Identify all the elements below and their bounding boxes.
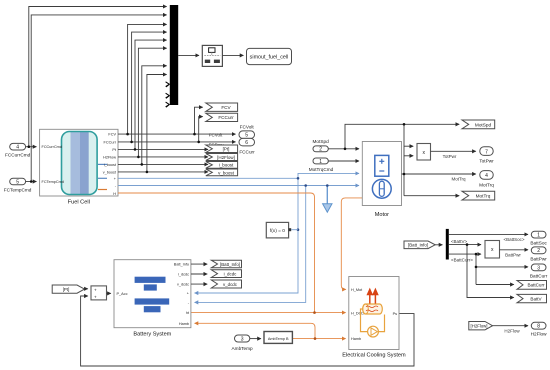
wire port2 to motor	[328, 148, 359, 150]
wire MotTrq branch to goto MotTrq	[404, 195, 459, 197]
svg-text:[Pt]: [Pt]	[223, 147, 230, 152]
svg-text:+: +	[94, 294, 97, 299]
wire BattCurr branch to outport 3	[476, 266, 528, 268]
wire battery v_dcdc to goto	[191, 283, 207, 285]
svg-text:<BattV>: <BattV>	[451, 239, 468, 244]
svg-text:MotSpd: MotSpd	[313, 139, 330, 144]
svg-text:FCCurr: FCCurr	[239, 149, 255, 154]
svg-text:FCV: FCV	[108, 133, 116, 137]
input port 3 AmbTemp	[232, 335, 253, 351]
svg-text:v_dcdc: v_dcdc	[177, 283, 189, 287]
input port 5 FCTempCmd	[4, 178, 32, 192]
outport 4 MotTrq	[479, 171, 494, 188]
wire H2Flow branch to bus creator	[138, 48, 166, 157]
svg-text:7: 7	[485, 149, 488, 155]
goto tag MotSpd	[462, 120, 495, 129]
svg-text:[H2Flow]: [H2Flow]	[471, 324, 488, 329]
svg-text:BattV: BattV	[530, 296, 542, 301]
wire i_boost branch to bus creator	[142, 66, 167, 165]
wire v_boost branch to bus creator	[147, 75, 167, 172]
svg-text:H_Mot: H_Mot	[351, 288, 363, 292]
wire FCCurrCmd branch to bus creator	[29, 7, 167, 147]
thermal wire battery ht to cooling H_DCDC	[191, 312, 346, 314]
outport 3 BattCurr	[530, 264, 548, 278]
wire record block to simout	[222, 54, 243, 56]
svg-text:1: 1	[319, 159, 322, 165]
goto tag BattV	[517, 294, 547, 302]
wire [Pt] to sum	[85, 288, 88, 290]
wire FCV branch to bus creator	[128, 24, 167, 134]
svg-text:BattSoc: BattSoc	[530, 241, 547, 246]
input port 1 MotTrqCmd	[309, 158, 334, 172]
wire FCV to outport 5	[118, 133, 236, 135]
outport 2 BattPwr	[530, 247, 547, 261]
svg-text:Hamb: Hamb	[179, 322, 189, 326]
from tag [Pt]	[52, 285, 84, 293]
wire BattV to product2	[449, 244, 481, 246]
product block BattPwr	[485, 241, 500, 259]
wire - down to battery	[195, 186, 306, 303]
simout_fuel_cell block	[247, 48, 292, 64]
svg-text:P_Acc: P_Acc	[117, 292, 128, 296]
outport 5 FCVolt	[239, 125, 255, 139]
Electrical Cooling System block	[342, 277, 406, 359]
wire port3 to AmbTemp block	[250, 338, 261, 340]
svg-text:Motor: Motor	[375, 212, 389, 218]
goto tag [Pt]	[206, 145, 238, 153]
pump and pipes	[361, 309, 368, 332]
wire FCCurr to outport 6	[118, 141, 236, 143]
thermal wire AmbTemp to cooling Hamb	[292, 338, 345, 340]
junction dots black	[28, 123, 478, 268]
svg-text:BattCurr: BattCurr	[527, 283, 545, 288]
goto tag i_dcdc	[211, 270, 241, 278]
bus selector	[446, 229, 449, 260]
annotation blue arrow	[323, 186, 332, 213]
svg-text:BattPwr: BattPwr	[530, 256, 547, 261]
svg-text:FCTempCmd: FCTempCmd	[4, 187, 32, 192]
feedback wire cooling Ps to sum	[81, 296, 414, 366]
wire sum to battery P_Acc	[107, 292, 111, 294]
svg-text:MotTrq: MotTrq	[451, 176, 466, 181]
svg-text:<BattSoc>: <BattSoc>	[503, 237, 524, 242]
goto tag [Batt_Info]	[211, 260, 241, 268]
wire Pt to goto [Pt]	[118, 148, 208, 150]
junction dots orange	[313, 311, 316, 340]
wire FCCurr branch to bus creator	[132, 32, 167, 142]
wire BattCurr branch down	[475, 254, 477, 284]
outport 7 TotPwr	[479, 147, 494, 164]
svg-text:2: 2	[537, 248, 540, 254]
svg-text:i_dcdc: i_dcdc	[224, 272, 238, 277]
goto tag v_dcdc	[211, 280, 241, 288]
svg-text:AmbTemp: AmbTemp	[232, 346, 253, 351]
solver block f(x)=0	[266, 222, 291, 238]
svg-text:H2Flow: H2Flow	[103, 155, 116, 159]
wire BattCurr to product2	[449, 253, 481, 255]
svg-text:v_boost: v_boost	[103, 170, 117, 174]
wire port5 to Fuel Cell	[26, 181, 37, 183]
svg-text:4: 4	[16, 145, 19, 151]
svg-text:[Batt_Info]: [Batt_Info]	[220, 262, 240, 267]
svg-text:[H2Flow]: [H2Flow]	[217, 155, 235, 160]
wire product2 to outport 2	[500, 249, 529, 251]
wire to product input 1	[404, 145, 413, 147]
svg-text:FCV: FCV	[221, 105, 231, 110]
thermal wire AmbTemp branch to battery Hamb	[195, 323, 315, 338]
svg-text:H2Flow: H2Flow	[531, 332, 548, 337]
svg-text:simout_fuel_cell: simout_fuel_cell	[250, 54, 289, 60]
svg-text:1: 1	[537, 233, 540, 239]
Motor block	[362, 142, 401, 219]
wire port4 to Fuel Cell	[26, 146, 37, 148]
svg-text:Battery System: Battery System	[133, 331, 171, 337]
svg-text:FCVolt: FCVolt	[209, 133, 223, 138]
svg-text:<BattCurr>: <BattCurr>	[451, 257, 473, 262]
svg-text:FCTempCmd: FCTempCmd	[42, 180, 64, 184]
svg-text:MotSpd: MotSpd	[475, 122, 492, 127]
wire MotSpd branch up to goto	[345, 124, 459, 149]
wire BattV branch to goto BattV	[467, 245, 514, 298]
wire battery i_dcdc to goto	[191, 273, 207, 275]
svg-text:5: 5	[16, 179, 19, 185]
wire battery Batt_Info to goto	[191, 263, 207, 265]
svg-text:FCVolt: FCVolt	[240, 125, 255, 130]
goto tag [H2Flow]	[206, 154, 238, 161]
product block TotPwr	[417, 144, 431, 161]
thermal wire fuel cell H (orange)	[118, 193, 315, 313]
input port 4 FCCurrCmd	[5, 143, 31, 157]
svg-text:i_boost: i_boost	[104, 163, 117, 167]
svg-text:BattPwr: BattPwr	[505, 253, 521, 258]
wire + down to battery	[195, 178, 298, 293]
svg-text:TotPwr: TotPwr	[443, 154, 457, 159]
wire [Batt_Info] to bus selector	[435, 244, 442, 246]
svg-text:MotTrq: MotTrq	[476, 194, 491, 199]
svg-text:v_dcdc: v_dcdc	[223, 282, 238, 287]
wire port1 to motor	[328, 160, 359, 162]
wire Pt branch to bus creator	[135, 40, 167, 149]
electrical - bus wire (blue) fuel cell to motor	[118, 185, 359, 187]
sum block	[91, 286, 107, 300]
AmbTemp conversion block	[264, 332, 292, 344]
svg-text:[Pt]: [Pt]	[63, 287, 70, 292]
outport 6 FCCurr	[239, 138, 255, 154]
wire FCV branch to goto FCV	[195, 107, 203, 134]
svg-text:Ps: Ps	[393, 312, 398, 316]
svg-text:AmbTemp B: AmbTemp B	[268, 337, 289, 341]
wire [H2Flow] to outport 8	[493, 325, 529, 327]
wire bus creator output to record block	[178, 54, 199, 56]
cooling icon: heat exchanger cylinder	[363, 304, 383, 314]
svg-text:MotTrq: MotTrq	[479, 183, 494, 188]
svg-text:3: 3	[241, 337, 244, 343]
from tag [Batt_Info] right	[404, 241, 435, 249]
svg-text:5: 5	[245, 133, 248, 139]
Fuel Cell block	[40, 129, 118, 205]
wire product to outport 7	[431, 150, 476, 152]
goto tag FCCurr	[206, 113, 238, 121]
svg-text:FCCurrCmd: FCCurrCmd	[42, 145, 62, 149]
outport 1 BattSoc	[530, 231, 547, 245]
wire + to motor	[298, 173, 359, 178]
svg-text:BattCurr: BattCurr	[530, 273, 548, 278]
bus creator (mux)	[170, 5, 178, 105]
wire BattCurr branch to goto BattCurr	[476, 284, 514, 286]
goto tag FCV	[206, 103, 238, 111]
svg-text:f(x) = 0: f(x) = 0	[270, 228, 285, 234]
svg-text:4: 4	[485, 173, 488, 179]
wire FCTempCmd branch to bus creator	[31, 15, 166, 182]
svg-text:H2Flow: H2Flow	[504, 328, 520, 333]
goto tag v_boost	[206, 169, 238, 176]
wire vertical junction line at product	[403, 124, 405, 195]
svg-text:+: +	[94, 287, 97, 292]
Battery System block	[114, 260, 191, 338]
red heat arrows	[368, 290, 378, 304]
svg-text:Batt_Info: Batt_Info	[174, 263, 189, 267]
goto tag i_boost	[206, 162, 238, 169]
svg-text:6: 6	[245, 140, 248, 146]
outport 8 H2Flow	[531, 322, 548, 336]
svg-text:Electrical Cooling System: Electrical Cooling System	[342, 353, 406, 359]
svg-text:Hamb: Hamb	[351, 337, 361, 341]
electrical + bus wire (blue) fuel cell to junction	[118, 177, 298, 179]
svg-text:FCCurrCmd: FCCurrCmd	[5, 153, 31, 158]
svg-text:2: 2	[319, 147, 322, 153]
svg-text:v_boost: v_boost	[218, 170, 235, 175]
svg-text:i_dcdc: i_dcdc	[178, 273, 189, 277]
wire v_boost to goto v_boost	[118, 171, 208, 173]
wire motor MotTrq output	[402, 173, 476, 175]
junction dots blue	[297, 177, 329, 231]
wire to product input 2	[404, 155, 413, 157]
input port 2 MotSpd	[313, 139, 330, 153]
wire FCCurr branch to goto FCCurr	[199, 117, 203, 142]
svg-text:8: 8	[537, 324, 540, 330]
thermal wire motor H to cooling H_Mot	[341, 198, 362, 290]
svg-text:TotPwr: TotPwr	[479, 159, 494, 164]
svg-text:FCCurr: FCCurr	[104, 140, 117, 144]
svg-text:MotTrqCmd: MotTrqCmd	[309, 167, 334, 172]
wire BattSoc to outport 1	[449, 233, 528, 235]
goto tag MotTrq	[462, 191, 495, 200]
svg-text:i_boost: i_boost	[219, 163, 234, 168]
svg-text:FCCurr: FCCurr	[218, 115, 234, 120]
record block (To Workspace scope)	[202, 45, 222, 66]
svg-text:[Batt_Info]: [Batt_Info]	[408, 243, 428, 248]
svg-text:3: 3	[537, 265, 540, 271]
svg-text:H: H	[113, 192, 116, 196]
from tag [H2Flow]	[469, 322, 493, 330]
wire solver to + net	[291, 229, 298, 231]
goto tag BattCurr	[517, 281, 547, 290]
wire i_boost to goto i_boost	[118, 163, 208, 165]
svg-text:Fuel Cell: Fuel Cell	[68, 200, 90, 206]
unconnected port marks on bus creator	[166, 82, 170, 108]
wire H2Flow to goto [H2Flow]	[118, 156, 208, 158]
